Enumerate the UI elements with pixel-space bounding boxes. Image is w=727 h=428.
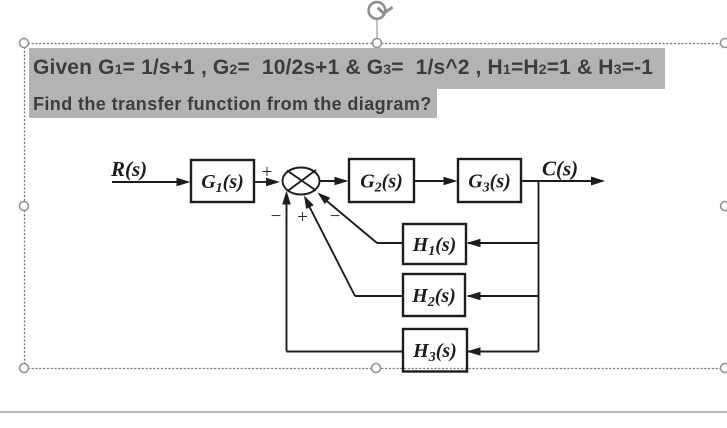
svg-text:H3(s): H3(s) xyxy=(412,340,457,365)
svg-text:−: − xyxy=(330,206,341,227)
svg-text:+: + xyxy=(262,162,273,183)
svg-text:G3(s): G3(s) xyxy=(468,171,511,196)
svg-text:+: + xyxy=(297,207,308,228)
svg-text:G2(s): G2(s) xyxy=(360,171,403,196)
svg-text:−: − xyxy=(271,206,282,227)
svg-text:R(s): R(s) xyxy=(110,157,147,181)
svg-text:G1(s): G1(s) xyxy=(201,171,244,196)
svg-text:C(s): C(s) xyxy=(542,157,578,181)
svg-text:H2(s): H2(s) xyxy=(411,285,456,310)
svg-text:H1(s): H1(s) xyxy=(412,234,457,259)
